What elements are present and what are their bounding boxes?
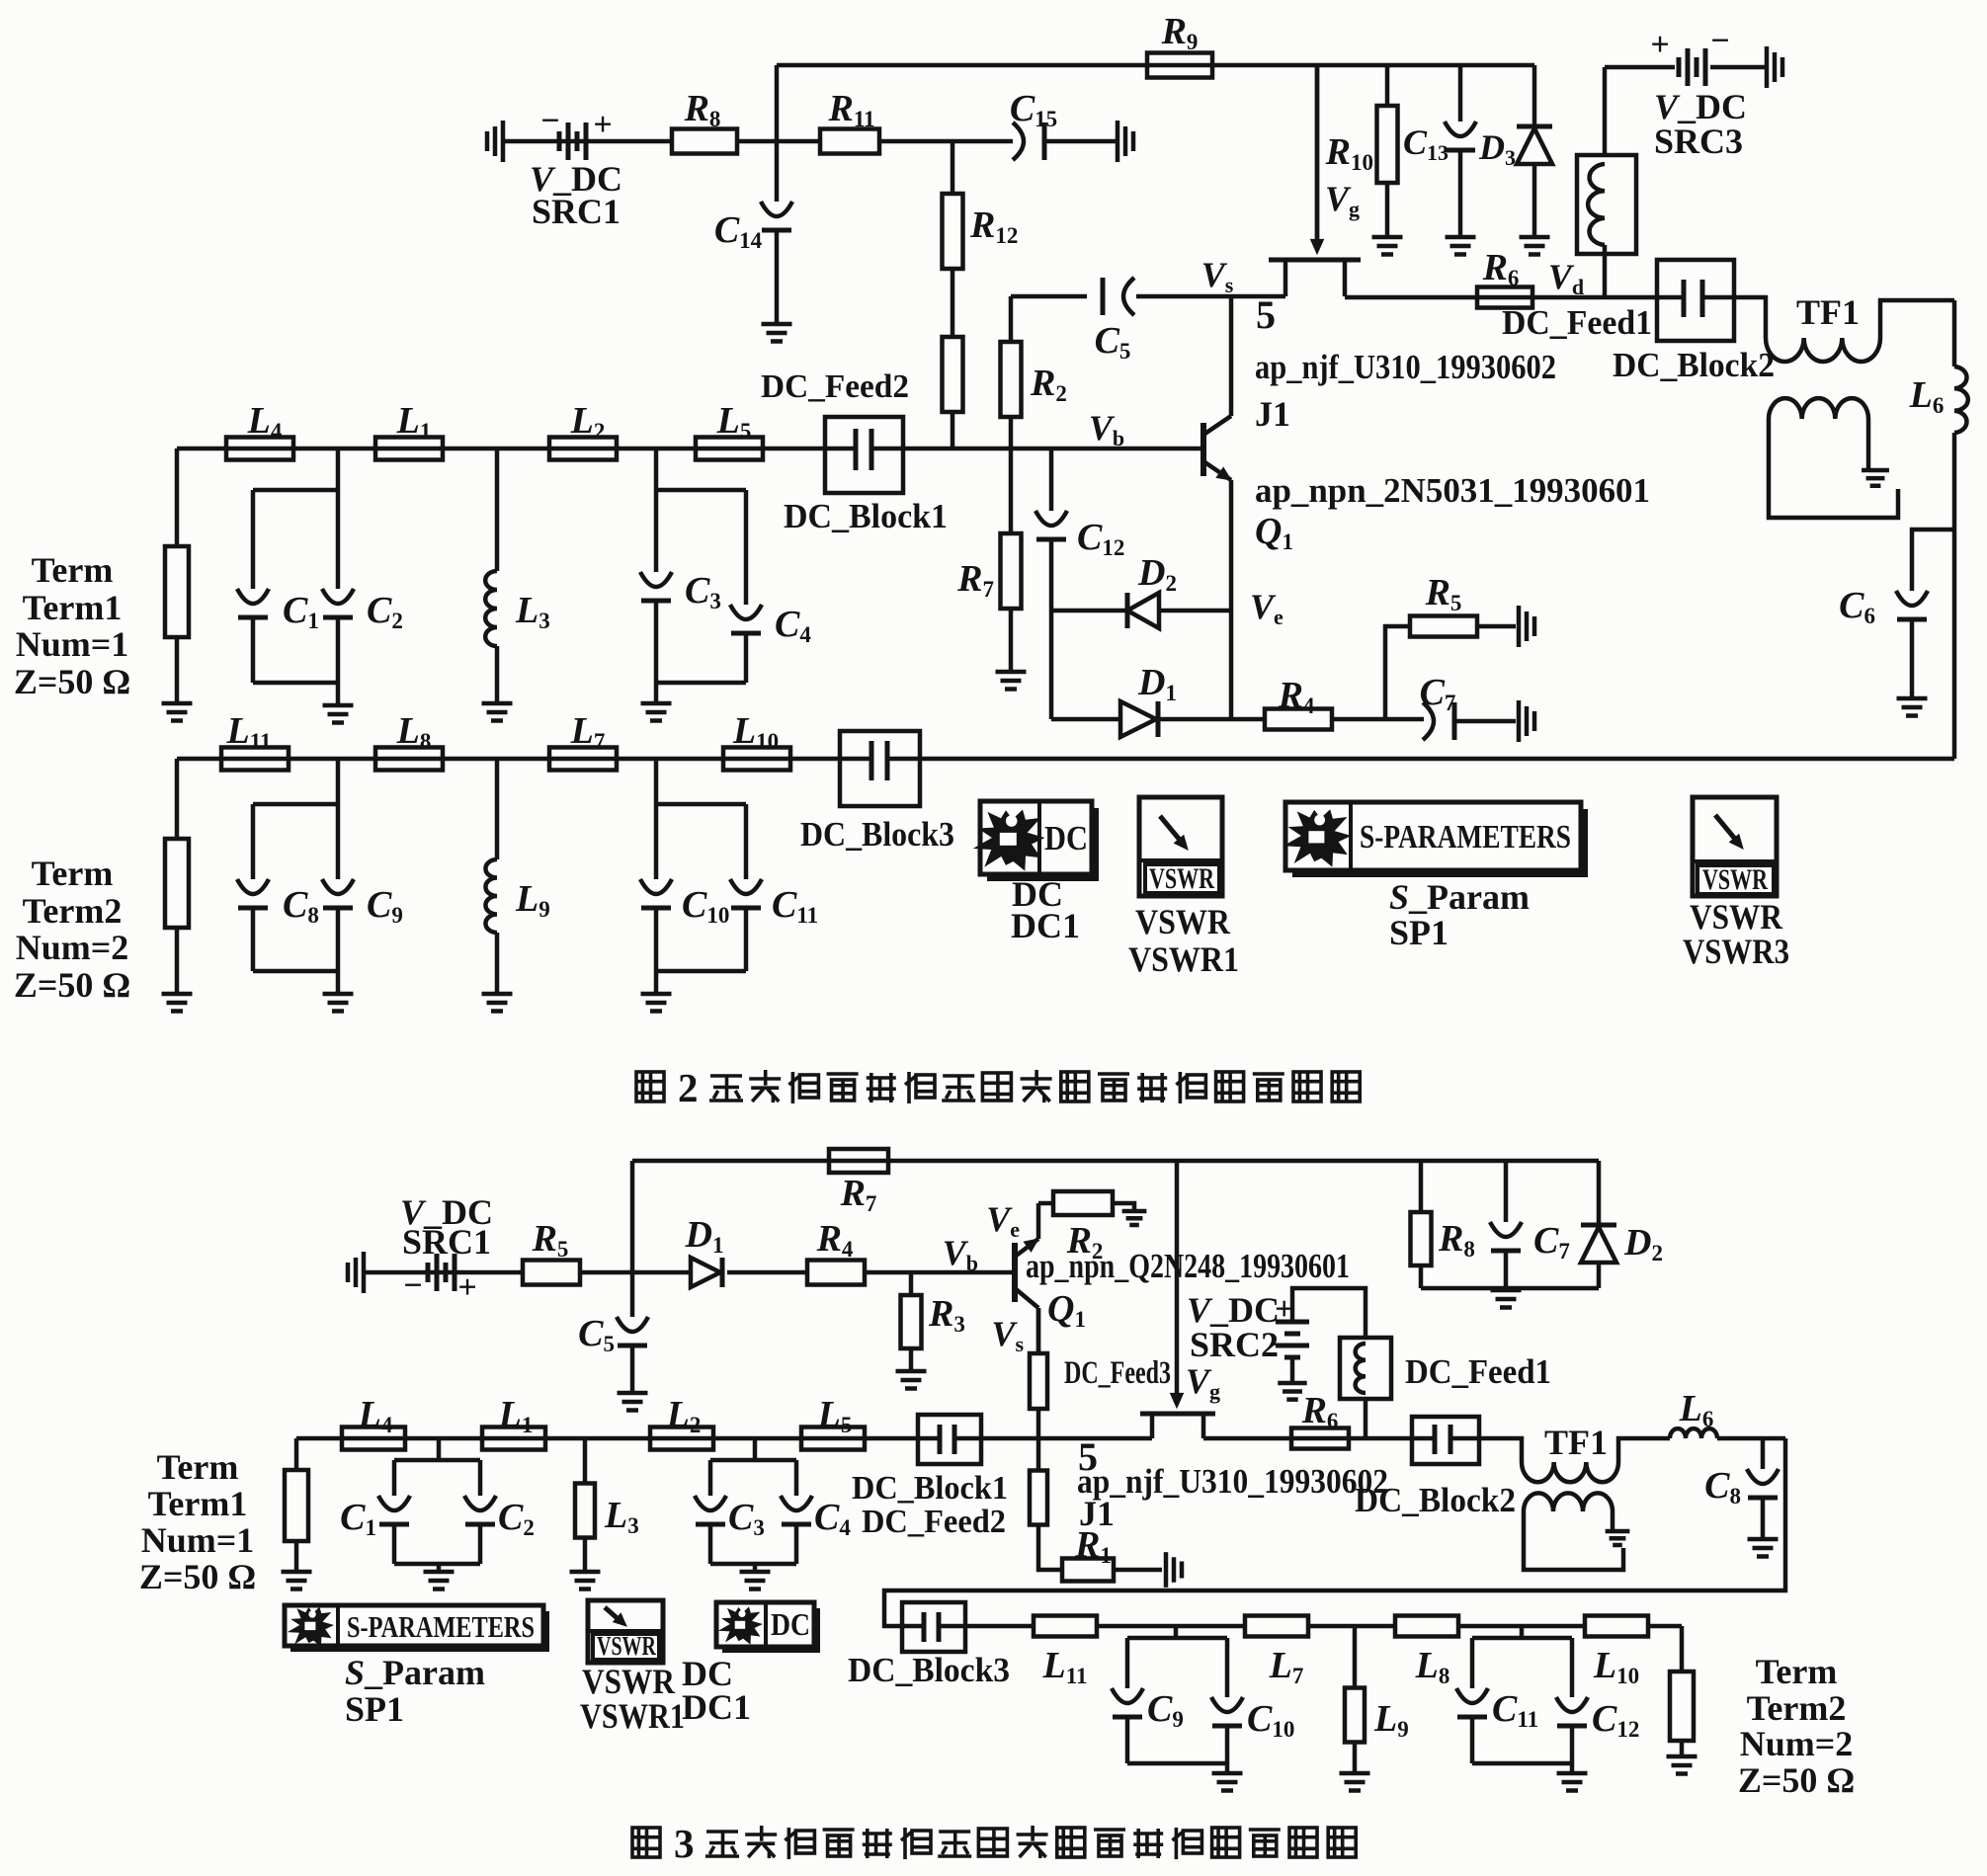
block DC1 controller (c2)	[716, 1602, 814, 1647]
wire rail down to DC_Feed2 (c2)	[1036, 1438, 1041, 1471]
wire D1 to R4	[1158, 717, 1265, 722]
wire C15 to ground stub	[1046, 139, 1116, 144]
svg-text:VSWR: VSWR	[1690, 897, 1783, 937]
wire L9 to ground (c2)	[1353, 1743, 1358, 1771]
svg-text:S-PARAMETERS: S-PARAMETERS	[1360, 819, 1571, 856]
wire L3 to ground	[495, 646, 500, 701]
label R6	[1482, 247, 1520, 290]
label D3	[1478, 127, 1516, 170]
svg-text:Term1: Term1	[23, 588, 123, 627]
ground under C11C12 (c2)	[1557, 1773, 1588, 1791]
wire C9C10 ground stem (c2)	[1225, 1763, 1230, 1771]
label C14	[714, 209, 763, 253]
capacitor C1	[237, 589, 269, 617]
wire out rail 3 (c2)	[1308, 1624, 1395, 1629]
wire fold back (c2)	[884, 1438, 1785, 1626]
wire C12 to D2 line	[1049, 539, 1054, 611]
block DC1 shadow (c2)	[722, 1608, 820, 1653]
label C5 (circuit2)	[578, 1313, 615, 1356]
label L5	[716, 400, 752, 444]
wire C1C2 to ground	[336, 683, 341, 703]
wire C11 stem (c2)	[1470, 1638, 1475, 1688]
wire out rail 1 (c2)	[965, 1624, 1034, 1629]
port Term2 (box symbol)	[165, 839, 189, 928]
inductor DC_Feed3 (box symbol)	[1030, 1353, 1047, 1409]
capacitor C8	[237, 879, 269, 908]
diode D2 (c2)	[1581, 1225, 1616, 1263]
ground under R7	[996, 672, 1027, 690]
resistor R3	[901, 1295, 922, 1348]
ground under D3	[1520, 237, 1550, 255]
label SP1	[1389, 913, 1449, 952]
wire D2 node down to D1 line	[1049, 611, 1054, 719]
wire Term1 to ground	[175, 637, 180, 701]
label V_DC (SRC2)	[1187, 1290, 1280, 1330]
label C6	[1839, 585, 1875, 628]
resistor R10	[1377, 106, 1398, 183]
inductor L8 (box symbol)	[375, 748, 443, 771]
svg-text:S_Param: S_Param	[345, 1653, 485, 1692]
label VSWR (VSWR3)	[1690, 897, 1783, 937]
wire C9 lower stem	[336, 908, 341, 971]
resistor R2 (circuit2)	[1053, 1191, 1113, 1215]
wire junction to C3C4 (c2)	[753, 1438, 758, 1460]
label Vg (circuit2)	[1186, 1361, 1220, 1404]
wire C9 lower stem (c2)	[1125, 1717, 1130, 1763]
capacitor C13	[1445, 122, 1476, 150]
wire C3 lower stem	[654, 601, 659, 683]
label VSWR1	[1128, 939, 1239, 979]
inductor L9 (box symbol c2)	[1345, 1688, 1365, 1743]
resistor R6 (c2)	[1291, 1428, 1349, 1449]
port Term1 (c2)	[285, 1470, 308, 1541]
capacitor DC_Block1 (boxed)	[825, 417, 903, 493]
label R4	[1278, 675, 1315, 718]
resistor R5	[1410, 616, 1477, 637]
wire C4 lower stem (c2)	[794, 1524, 799, 1564]
wire out rail 5 (c2)	[1648, 1624, 1682, 1629]
label C7	[1420, 672, 1456, 715]
svg-text:ap_npn_2N5031_19930601: ap_npn_2N5031_19930601	[1255, 471, 1650, 510]
label Term1 (c2)	[148, 1484, 248, 1523]
transformer TF1 secondary (c2)	[1524, 1493, 1613, 1511]
wire C3C4 bottom bracket	[656, 681, 746, 686]
svg-text:−: −	[540, 103, 559, 139]
capacitor DC_Block2 (boxed c2)	[1412, 1417, 1479, 1464]
label DC_Block2 (c2)	[1355, 1481, 1516, 1519]
label C1 (c2)	[340, 1497, 376, 1540]
label S_Param (c2)	[345, 1653, 485, 1692]
label L3	[515, 590, 550, 633]
svg-text:DC: DC	[1044, 819, 1088, 857]
wire C13 to ground	[1458, 150, 1463, 235]
wire SRC1 to R8	[505, 139, 673, 144]
ground under C3C4	[641, 703, 672, 721]
wire junction to C1C2 (c2)	[437, 1438, 442, 1460]
label L4	[247, 400, 283, 444]
label DC1	[1011, 906, 1080, 945]
label VSWR label (c2)	[582, 1662, 676, 1701]
label L11	[226, 710, 272, 754]
wire C9 stem (c2)	[1125, 1638, 1130, 1688]
wire L3 stem (c2)	[583, 1438, 588, 1484]
transformer TF1 primary (c2)	[1522, 1462, 1618, 1482]
ground under C3C4 (c2)	[740, 1572, 771, 1590]
wire L3 to ground (c2)	[583, 1538, 588, 1570]
wire Term1 to ground (c2)	[294, 1541, 299, 1570]
wire junction to C9C10 (c2)	[1174, 1626, 1179, 1638]
svg-text:Term: Term	[1756, 1652, 1838, 1691]
wire Term1 branch (c2)	[294, 1438, 299, 1470]
label TF1 (c2)	[1544, 1423, 1608, 1462]
label J1 (circuit2)	[1079, 1494, 1115, 1533]
label DC_Block1	[784, 497, 948, 535]
label L7	[570, 710, 606, 754]
label Q1 (circuit2)	[1047, 1288, 1086, 1332]
wire junction to top rail	[775, 65, 780, 141]
svg-text:Num=1: Num=1	[141, 1520, 255, 1560]
svg-text:TF1: TF1	[1796, 292, 1860, 332]
wire C4 lower stem	[744, 633, 749, 683]
label C11 (c2)	[1492, 1688, 1538, 1732]
label R10	[1325, 131, 1373, 175]
label L6	[1909, 374, 1945, 418]
label Term2 (c2)	[1747, 1688, 1847, 1728]
wire DC_Feed3 to Vs rail	[1036, 1409, 1041, 1438]
label C3	[685, 570, 721, 613]
resistor R2	[1001, 342, 1022, 417]
label C4 (c2)	[814, 1497, 851, 1540]
label L2 (c2)	[666, 1394, 702, 1437]
wire R8 to R11	[737, 139, 820, 144]
wire C1 stem	[251, 490, 256, 589]
wire C3C4 top bracket	[656, 488, 746, 493]
capacitor C4	[730, 605, 762, 633]
svg-text:Z=50 Ω: Z=50 Ω	[14, 662, 130, 701]
svg-text:VSWR1: VSWR1	[1128, 939, 1239, 979]
label C5	[1095, 320, 1131, 364]
svg-text:DC1: DC1	[1011, 906, 1080, 945]
coil inside DC_Feed1	[1588, 164, 1605, 245]
label VSWR inside block	[1149, 862, 1214, 895]
ground right of SRC3	[1767, 46, 1782, 88]
svg-text:Num=2: Num=2	[16, 928, 129, 967]
wire D2 line right segment	[1159, 609, 1231, 613]
capacitor C12	[1035, 511, 1067, 539]
wire rail down to C7 (c2)	[1504, 1161, 1509, 1222]
label Vs (circuit2)	[991, 1314, 1024, 1356]
wire Vb rail down to R7	[1009, 449, 1014, 533]
wire D2 to bottom bracket (c2)	[1597, 1263, 1602, 1288]
resistor R11	[820, 129, 879, 154]
wire C8C9 top bracket	[253, 802, 338, 807]
ground under L9 (c2)	[1340, 1773, 1370, 1791]
coil inside DC_Feed1 (c2)	[1356, 1344, 1366, 1393]
label Term (Term2)	[32, 854, 114, 893]
inductor DC_Feed1 (boxed coil)	[1577, 155, 1636, 254]
inductor L6	[1954, 367, 1968, 433]
plates inside DC_Block2 (c2)	[1412, 1425, 1479, 1454]
wire C10C11 bottom bracket	[656, 969, 746, 974]
label Num=1 (c2)	[141, 1520, 255, 1560]
wire Vb rail left section	[177, 447, 825, 451]
svg-text:Num=2: Num=2	[1740, 1724, 1854, 1763]
svg-text:Z=50 Ω: Z=50 Ω	[1738, 1760, 1855, 1800]
wire R5 to ground stub	[1477, 624, 1516, 629]
label C10	[682, 884, 729, 928]
label J1	[1255, 394, 1290, 434]
label C7 (c2)	[1533, 1220, 1570, 1264]
wire DC_Feed2 to Vb rail	[951, 413, 955, 449]
label V_DC (SRC1 c2)	[400, 1192, 493, 1232]
resistor R1 (c2)	[1062, 1559, 1114, 1582]
wire C1 lower stem (c2)	[392, 1524, 397, 1564]
ground under Term2	[162, 994, 193, 1012]
ground under SRC2	[1278, 1383, 1306, 1400]
label C1	[283, 590, 319, 633]
svg-text:−: −	[403, 1267, 422, 1304]
label Num=1	[16, 624, 129, 664]
wire R8 to bottom bracket (c2)	[1419, 1265, 1424, 1288]
inductor DC_Feed2 (box symbol)	[943, 337, 963, 412]
label SRC2	[1190, 1325, 1279, 1364]
capacitor C11	[730, 879, 762, 908]
label C11	[772, 884, 818, 928]
wire D3 to ground	[1532, 164, 1537, 235]
label SRC1 (c2)	[402, 1222, 491, 1262]
wire R4 to Q1 base (circuit2)	[865, 1270, 1013, 1275]
wire Vs rail mid part (c2)	[981, 1436, 1152, 1441]
wire DC_Feed2 to R1 (c2)	[1038, 1525, 1062, 1570]
capacitor DC_Block3 (boxed c2)	[902, 1602, 965, 1652]
label V_DC (SRC1)	[530, 159, 622, 199]
ground under R8C7D2 (c2)	[1491, 1290, 1522, 1308]
label L11 (c2)	[1042, 1645, 1088, 1688]
svg-text:5: 5	[1256, 292, 1276, 337]
label L1	[396, 400, 432, 444]
label Term1	[23, 588, 123, 627]
resistor R7	[1001, 533, 1022, 609]
svg-text:DC1: DC1	[682, 1687, 751, 1727]
wire DC_Feed1 to rail (c2)	[1364, 1399, 1368, 1438]
svg-text:VSWR: VSWR	[597, 1631, 656, 1661]
label Z=50 ohm (Term1)	[14, 662, 130, 701]
label VSWR (VSWR1)	[1135, 902, 1231, 941]
wire C2 lower stem	[336, 617, 341, 683]
wire L9 stem	[495, 759, 500, 859]
wire C1C2 ground stem (c2)	[437, 1564, 442, 1570]
ground under C5 (circuit2)	[618, 1393, 648, 1411]
label minus (SRC2)	[1269, 1327, 1287, 1363]
wire C4 stem	[744, 490, 749, 605]
capacitor C7	[1423, 702, 1454, 740]
label pin 5 (circuit2)	[1078, 1434, 1098, 1479]
ground under C1C2	[323, 705, 354, 723]
wire junction to C1C2 bracket	[336, 449, 341, 490]
inductor L7 (c2)	[1245, 1616, 1308, 1637]
wire Vs node down to R2	[1009, 296, 1014, 342]
plates inside DC_Block1	[825, 429, 903, 470]
inductor L8 (c2)	[1395, 1616, 1458, 1637]
transformer TF1 secondary coil	[1769, 398, 1868, 419]
wire top rail down to J1 gate	[1315, 65, 1320, 241]
inductor L10 (box symbol)	[723, 748, 790, 771]
wire L6 branch down to Term2 rail	[1952, 300, 1957, 367]
label C2 (c2)	[498, 1497, 535, 1540]
ground at SRC1 negative end (circuit2)	[348, 1252, 364, 1293]
resistor R8 (c2)	[1411, 1212, 1432, 1265]
ground right of R1 (c2)	[1166, 1552, 1182, 1588]
svg-text:Term: Term	[157, 1447, 239, 1487]
plates inside DC_Block3	[840, 741, 920, 780]
label SP1 (c2)	[345, 1689, 404, 1729]
wire C10 lower stem (c2)	[1225, 1726, 1230, 1763]
inductor L9	[485, 859, 497, 933]
svg-text:DC_Feed1: DC_Feed1	[1405, 1352, 1551, 1391]
wire C10C11 ground stem	[654, 971, 659, 992]
wire junction to C11C12 (c2)	[1520, 1626, 1525, 1638]
inductor L2 (c2)	[650, 1427, 713, 1450]
label Ve	[1250, 587, 1283, 629]
resistor R8	[672, 129, 737, 154]
svg-text:SRC3: SRC3	[1654, 122, 1743, 161]
wire SRC2 to ground	[1290, 1357, 1295, 1381]
label C13	[1403, 122, 1449, 165]
capacitor DC_Block1 (boxed c2)	[918, 1415, 981, 1464]
label Term (c2 T1)	[157, 1447, 239, 1487]
label C4	[775, 604, 811, 647]
block S-PARAMETERS	[1283, 802, 1581, 870]
wire L9 stem (c2)	[1353, 1626, 1358, 1688]
label DC_Block2	[1613, 346, 1775, 384]
label Vs	[1201, 255, 1234, 297]
label SRC3 minus	[1710, 23, 1729, 59]
wire Vb rail right section	[903, 447, 1203, 451]
wire D1 line left segment	[1051, 717, 1122, 722]
label R11	[827, 88, 874, 131]
svg-text:SP1: SP1	[345, 1689, 404, 1729]
wire circuit2 top rail	[632, 1159, 1599, 1164]
wire Term1 branch	[175, 449, 180, 546]
label C3 (c2)	[728, 1497, 765, 1540]
wire SRC3 battery lead	[1605, 65, 1675, 70]
wire L3 stem	[495, 449, 500, 571]
ground right of R2 (circuit2)	[1122, 1211, 1147, 1225]
wire Term2 rail	[177, 757, 840, 762]
label DC label (c2)	[682, 1654, 733, 1693]
label minus (SRC1 c2)	[403, 1267, 422, 1304]
wire R1 to ground stub (c2)	[1114, 1568, 1162, 1573]
inductor L5 (box symbol)	[696, 438, 763, 460]
svg-text:DC_Feed1: DC_Feed1	[1502, 303, 1652, 342]
wire DC_Feed1 to Vd node	[1603, 245, 1608, 297]
label D2 (c2)	[1623, 1222, 1663, 1265]
ground under R3	[896, 1371, 927, 1389]
label Vb (circuit2)	[943, 1233, 978, 1275]
wire C12 stem (c2)	[1570, 1638, 1575, 1697]
caption figure 2 (Chinese)	[636, 1065, 1360, 1110]
wire C3C4 top bracket (c2)	[710, 1458, 796, 1463]
inductor L4 (c2)	[342, 1427, 405, 1450]
label ap_npn_2N5031_19930601	[1255, 471, 1650, 510]
wire emitter to R2	[1038, 1201, 1053, 1206]
label VSWR inside block VSWR3	[1702, 863, 1768, 896]
label SRC1 minus	[540, 103, 559, 139]
wire L6 to bottom rail	[1952, 433, 1957, 759]
wire junction up to R5	[1385, 626, 1410, 719]
caption figure 3 (Chinese)	[632, 1821, 1356, 1866]
wire C11 lower stem (c2)	[1470, 1717, 1475, 1763]
wire C11 lower stem	[744, 908, 749, 971]
svg-text:3: 3	[674, 1821, 695, 1866]
svg-text:DC_Feed2: DC_Feed2	[761, 368, 909, 405]
svg-text:2: 2	[678, 1065, 699, 1110]
block DC1 controller shadow	[987, 808, 1099, 881]
svg-text:−: −	[1269, 1327, 1287, 1363]
label SRC3	[1654, 122, 1743, 161]
wire C5 to J1 source leg	[1136, 294, 1285, 299]
label C8 (c2)	[1704, 1465, 1741, 1509]
wire C3 stem (c2)	[708, 1460, 713, 1496]
wire Vs line	[1011, 294, 1087, 299]
capacitor C5	[1103, 278, 1134, 315]
svg-text:Term: Term	[32, 854, 114, 893]
label R3	[928, 1293, 965, 1337]
wire TF1 secondary ground stem (c2)	[1611, 1511, 1615, 1529]
label VSWR inside (c2)	[597, 1631, 656, 1661]
label DC_Feed1 (c2)	[1405, 1352, 1551, 1391]
svg-text:VSWR: VSWR	[582, 1662, 676, 1701]
ground under C8C9	[323, 994, 354, 1012]
ground under C14	[762, 324, 792, 342]
diode D1	[1120, 701, 1158, 737]
wire SRC3 to ground	[1710, 65, 1765, 70]
wire R5 to D1 (circuit2)	[580, 1270, 692, 1275]
wire C1C2 top bracket	[253, 488, 338, 493]
wire C9C10 bottom bracket (c2)	[1127, 1761, 1227, 1766]
wire C11C12 bottom bracket (c2)	[1472, 1761, 1572, 1766]
wire out rail 2 (c2)	[1097, 1624, 1245, 1629]
svg-text:S_Param: S_Param	[1389, 877, 1530, 917]
label L6 (c2)	[1679, 1388, 1714, 1431]
capacitor C15	[1013, 122, 1044, 160]
label L9 (c2)	[1373, 1698, 1409, 1742]
label L3 (c2)	[604, 1495, 639, 1538]
capacitor C9	[322, 879, 354, 908]
svg-text:J1: J1	[1255, 394, 1290, 434]
svg-text:DC_Block3: DC_Block3	[800, 815, 954, 854]
label C2	[367, 590, 403, 633]
wire TF1 secondary loop (c2)	[1524, 1511, 1623, 1570]
wire C7 to bottom bracket (c2)	[1504, 1251, 1509, 1288]
svg-text:V_DC: V_DC	[1187, 1290, 1280, 1330]
svg-text:Z=50 Ω: Z=50 Ω	[139, 1557, 256, 1596]
transistor J1 (JFET circuit2)	[1140, 1393, 1215, 1438]
ground TF1 secondary (c2)	[1606, 1531, 1630, 1545]
label Ve (circuit2)	[986, 1199, 1020, 1242]
ground under Term1 (c2)	[282, 1572, 312, 1590]
inductor L7 (box symbol)	[549, 748, 617, 771]
inductor L1 (box symbol)	[375, 438, 443, 460]
svg-text:Z=50 Ω: Z=50 Ω	[14, 965, 130, 1005]
diode D3	[1517, 126, 1552, 164]
label L1 (c2)	[498, 1394, 534, 1437]
wire C10C11 top bracket	[656, 802, 746, 807]
capacitor C4 (c2)	[781, 1496, 812, 1524]
capacitor C3	[640, 572, 672, 601]
svg-text:SRC1: SRC1	[532, 192, 621, 231]
label Vg	[1325, 179, 1360, 221]
